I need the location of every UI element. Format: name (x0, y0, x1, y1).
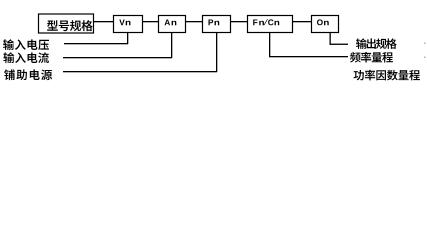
wire: Fn/Cn drop (269, 33, 270, 57)
block An (159, 16, 186, 33)
block Vn (114, 16, 143, 33)
wire: Pn drop (216, 33, 217, 72)
speck (424, 43, 426, 45)
wire: Pn to Fn/Cn (231, 21, 247, 22)
wire: Vn to An (143, 21, 158, 22)
block: model spec box 型号规格 (39, 14, 94, 33)
wire: Vn drop (127, 33, 128, 44)
label Pn (208, 19, 219, 25)
wire: An to Pn (186, 21, 202, 22)
label On (317, 19, 329, 25)
label frequency range 频率量程 (350, 52, 393, 63)
wire: An drop (171, 33, 172, 58)
wire: 型号规格 to Vn (94, 21, 113, 22)
block Pn (203, 16, 231, 33)
label Vn (119, 19, 130, 25)
wire: Fn/Cn to On (293, 21, 311, 22)
label output spec 输出规格 (356, 38, 397, 49)
wire: input-current horizontal (63, 57, 172, 58)
label input current 输入电流 (3, 52, 49, 63)
speck (424, 57, 426, 59)
wire: frequency-range horizontal (269, 56, 348, 57)
label An (164, 19, 176, 25)
label power factor range 功率因数量程 (354, 70, 420, 81)
block Fn/Cn (248, 16, 293, 33)
label 型号规格 (47, 20, 93, 31)
block On (312, 16, 339, 33)
block diagram: meter model specification breakdown (0, 0, 427, 93)
wire: output-spec horizontal (330, 44, 349, 45)
label aux power 铺助电源 (4, 69, 52, 80)
wire: On drop (330, 33, 331, 45)
wire: aux-power horizontal (63, 71, 217, 72)
label input voltage 输入电压 (3, 39, 49, 50)
wire: input-voltage horizontal (64, 43, 128, 44)
label Fn/Cn (253, 19, 279, 25)
